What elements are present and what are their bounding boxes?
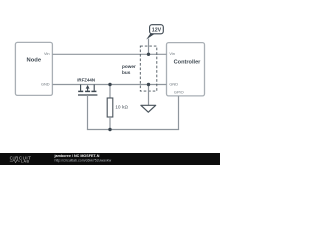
junction node dot (12V / Vin): [147, 53, 150, 56]
svg-text:LAB: LAB: [21, 160, 30, 164]
wire 12V supply drop: [148, 39, 150, 55]
wire GND net (Node GND to Controller GND): [52, 84, 166, 86]
wire GPIO drop: [178, 96, 180, 130]
junction node dot (resistor bottom): [108, 128, 111, 131]
svg-text:power: power: [122, 64, 136, 69]
svg-text:bus: bus: [122, 70, 131, 75]
svg-text:10 kΩ: 10 kΩ: [115, 105, 128, 110]
junction node dot (GND / ground): [147, 83, 150, 86]
resistor R1 10k: [107, 85, 113, 130]
svg-text:GPIO: GPIO: [174, 89, 184, 94]
svg-text:Vin: Vin: [169, 51, 175, 56]
module M1 (Node) box: [15, 42, 52, 95]
footer bar: [0, 153, 220, 165]
svg-text:Vin: Vin: [44, 51, 50, 56]
svg-text:http://circuitlab.com/c6kk752u: http://circuitlab.com/c6kk752uwaxkw: [55, 158, 112, 162]
transistor Q1 IRFZ44N (NMOS, rotated, gate down): [78, 85, 97, 96]
ground symbol: [141, 105, 156, 112]
svg-text:GND: GND: [41, 82, 50, 87]
wire Vin net (Node Vin to Controller Vin): [52, 53, 166, 55]
voltage label V1 12V callout balloon: [150, 25, 164, 34]
svg-text:Controller: Controller: [174, 60, 202, 66]
callout tail: [146, 34, 155, 40]
power bus dashed box: [140, 46, 157, 91]
svg-text:GND: GND: [169, 82, 178, 87]
svg-text:IRFZ44N: IRFZ44N: [77, 78, 95, 83]
junction node dot (resistor top): [108, 83, 111, 86]
wire gate drop: [87, 95, 89, 130]
wire bottom (gate to GPIO): [87, 129, 179, 131]
wire ground drop: [148, 85, 150, 106]
module M2 (Controller) box: [167, 43, 205, 96]
svg-text:12V: 12V: [152, 28, 162, 34]
svg-text:Node: Node: [27, 57, 42, 63]
